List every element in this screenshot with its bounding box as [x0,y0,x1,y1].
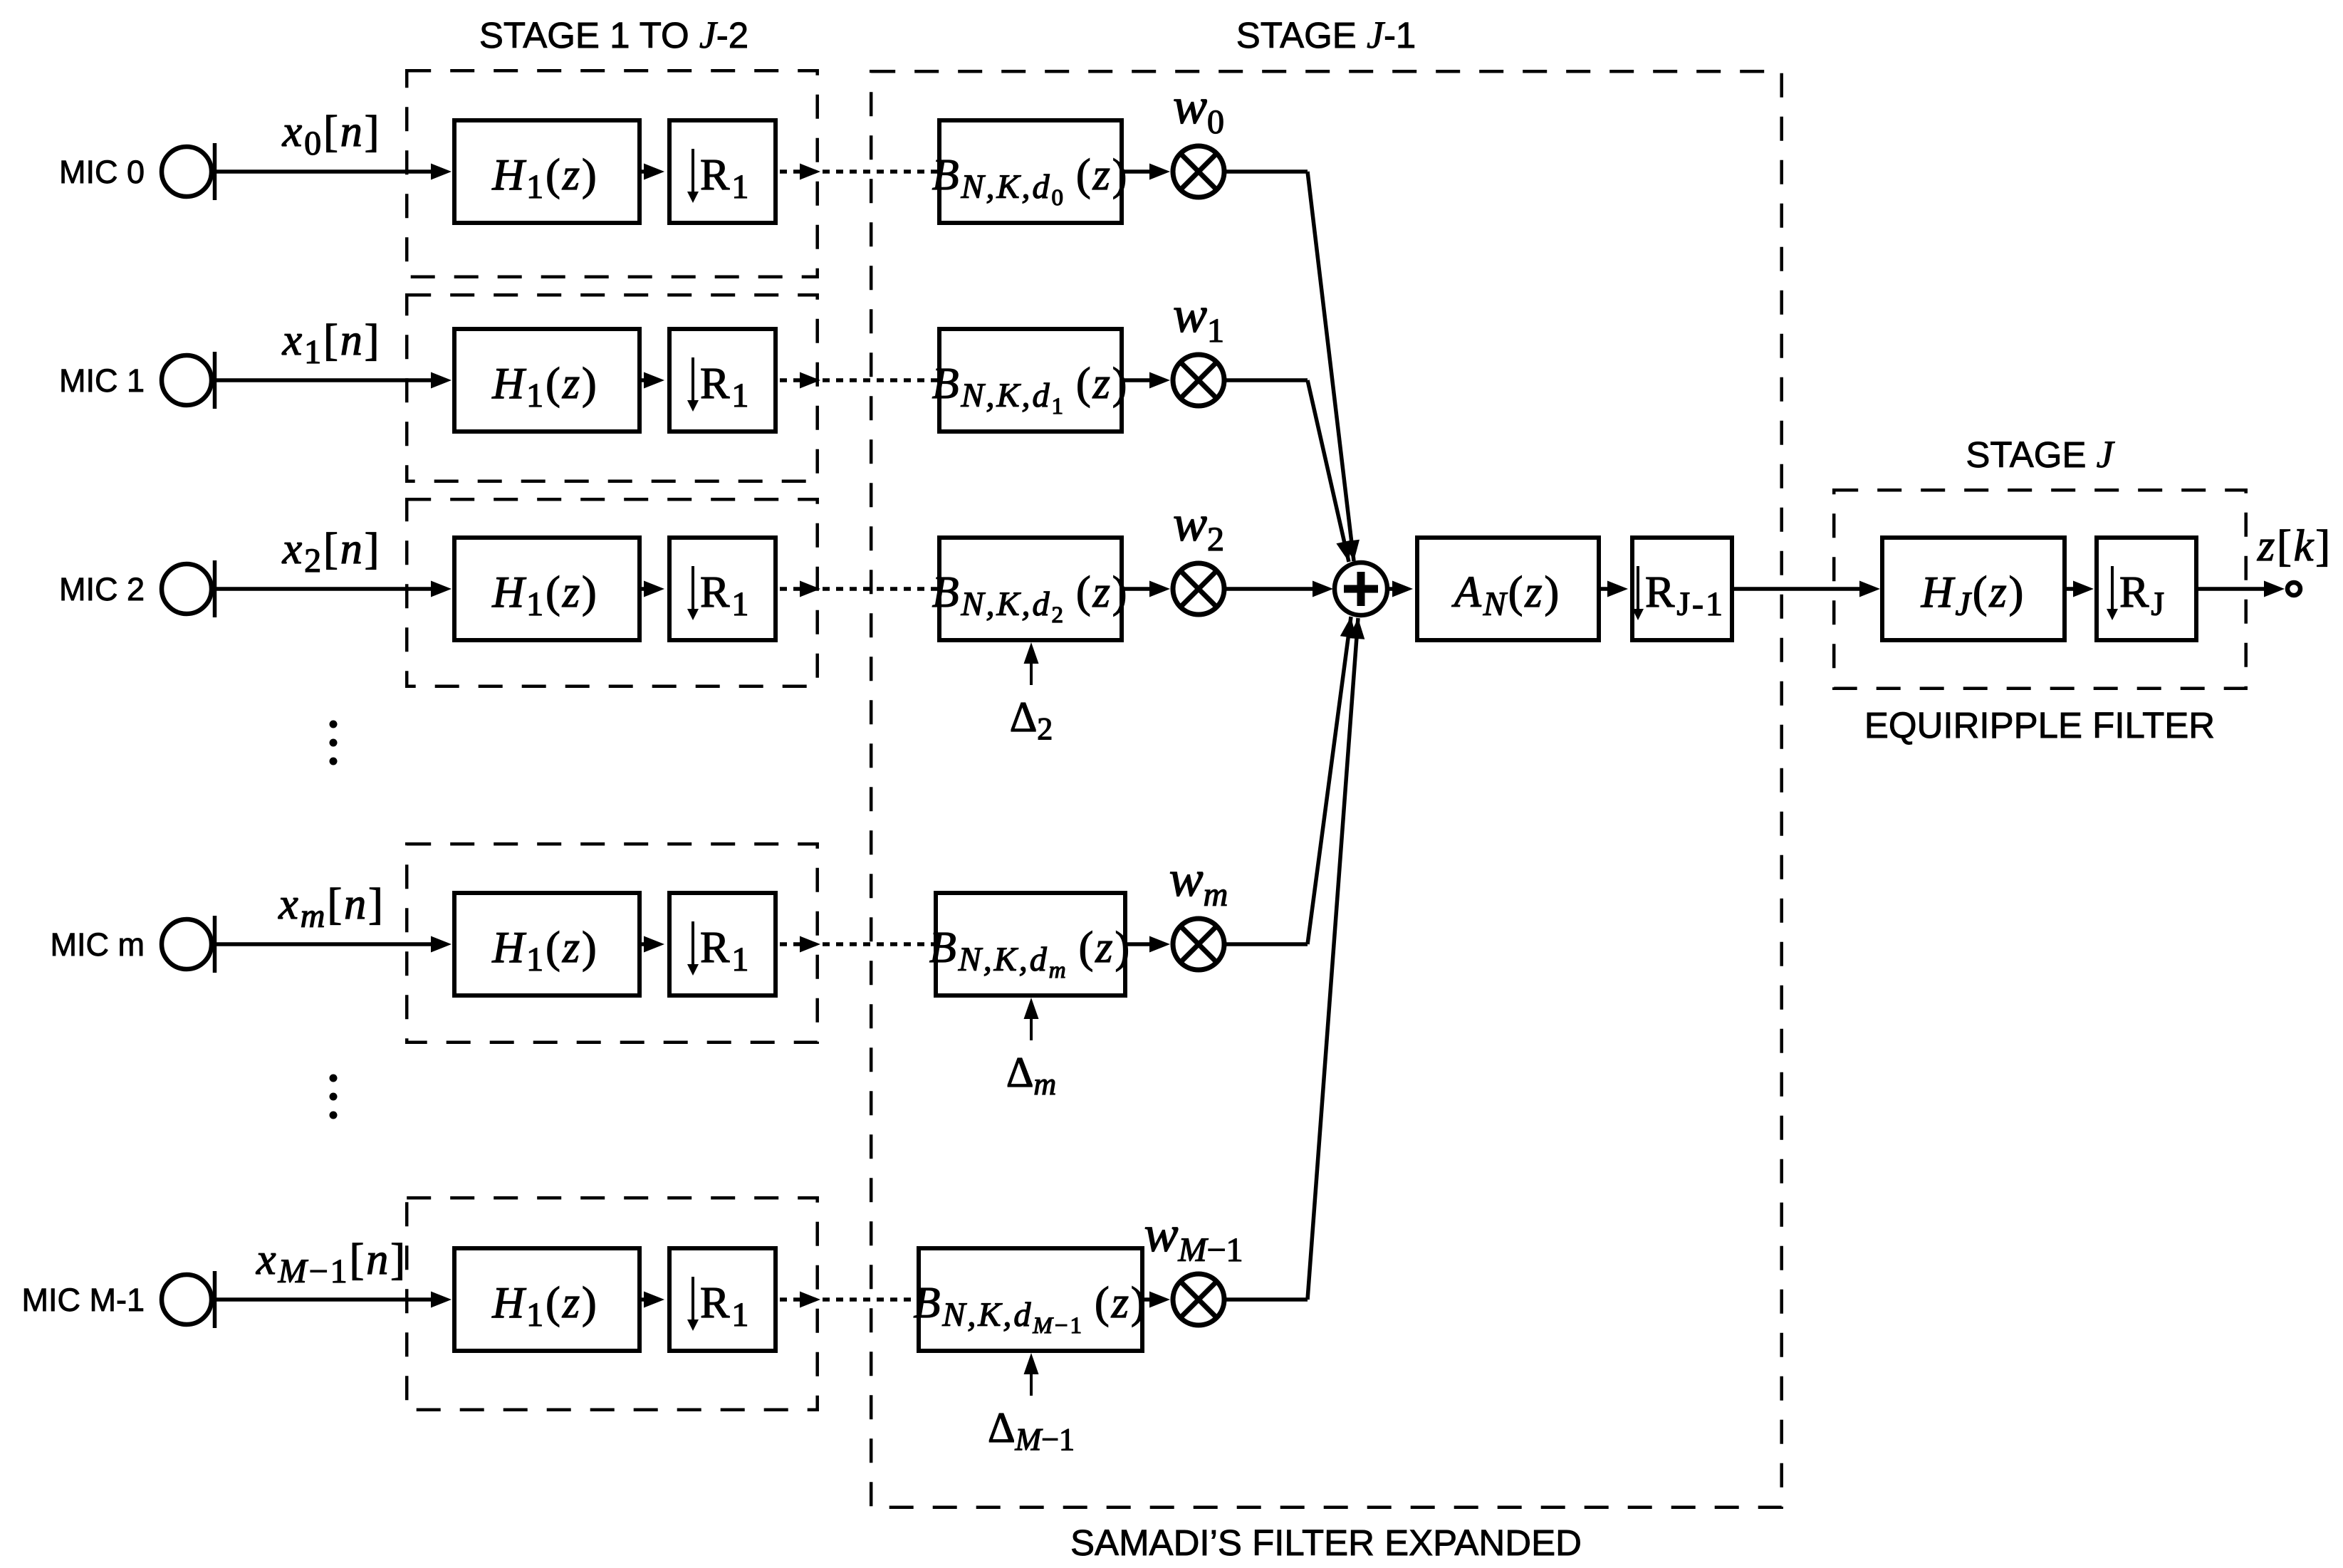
wire RJ-1 to HJ(z) [1734,581,1880,597]
multiplier (weight w_2) row 2 [1173,563,1224,615]
filter block H1(z) row 3 [454,893,640,995]
wire AN to RJ-1 [1601,581,1628,597]
filter block H1(z) row 0 [454,120,640,223]
wire multiplier w_m to summer [1224,617,1357,944]
svg-text:MIC 2: MIC 2 [59,571,145,607]
wire mic MIC 2 to H1 [216,581,452,597]
dotted wire R1 to B row 0 [780,164,937,180]
ellipsis dots between row 2 and MIC m [330,721,338,765]
wire B to multiplier row 3 [1127,936,1170,953]
wire H1 to R1 row 0 [642,164,664,180]
wire mic MIC 0 to H1 [216,164,452,180]
delay subfilter B_{N,K,d_1}(z) row 1 [932,329,1129,432]
wire Delta_m into B box row 3 [1024,998,1039,1040]
wire Delta_2 into B box row 2 [1024,642,1039,685]
wire multiplier w_1 to summer [1224,380,1352,562]
wire RJ to output terminal z[k] [2198,581,2285,597]
multiplier (weight w_m) row 3 [1173,919,1224,970]
microphone symbol MIC 0 [162,143,215,200]
wire H1 to R1 row 1 [642,372,664,389]
dashed frame STAGE J (equiripple filter) [1834,490,2246,689]
svg-text:x1[n]: x1[n] [282,316,382,371]
svg-text:z[k]: z[k] [2257,522,2332,570]
wire H1 to R1 row 4 [642,1292,664,1308]
svg-text:STAGE J: STAGE J [1966,433,2115,476]
dotted wire R1 to B row 2 [780,581,937,597]
dashed frame STAGE J-1 (Samadi filter expanded) [871,71,1782,1507]
dashed frame stage 1 row 4 [407,1198,817,1410]
dotted wire R1 to B row 3 [780,936,934,953]
delay subfilter B_{N,K,d_m}(z) row 3 [929,893,1132,995]
decimator RJ-1 [1632,538,1732,640]
svg-text:MIC m: MIC m [51,926,145,963]
summer node [1335,563,1387,615]
svg-text:SAMADI’S FILTER EXPANDED: SAMADI’S FILTER EXPANDED [1070,1522,1582,1563]
wire mic MIC m to H1 [216,936,452,953]
ellipsis dots between MIC m and MIC M-1 [330,1075,338,1119]
wire mic MIC 1 to H1 [216,372,452,389]
svg-text:H1(z): H1(z) [491,924,598,978]
wire B to multiplier row 0 [1124,164,1170,180]
dotted wire R1 to B row 4 [780,1292,917,1308]
wire HJ to RJ [2067,581,2094,597]
delay subfilter B_{N,K,d_M&#8722;1}(z) row 4 [914,1248,1148,1351]
dotted wire R1 to B row 1 [780,372,937,389]
multiplier (weight w_1) row 1 [1173,355,1224,406]
svg-text:MIC 0: MIC 0 [59,154,145,190]
svg-text:H1(z): H1(z) [491,151,598,206]
svg-text:MIC M-1: MIC M-1 [22,1282,145,1318]
dashed frame stage 1 row 0 [407,70,817,277]
svg-text:x2[n]: x2[n] [282,525,382,580]
dashed frame stage 1 row 2 [407,499,817,686]
wire Delta_M&#8722;1 into B box row 4 [1024,1353,1039,1396]
wire summer to AN(z) [1389,581,1413,597]
equiripple filter block HJ(z) [1882,538,2065,640]
multiplier (weight w_M&#8722;1) row 4 [1173,1274,1224,1325]
svg-text:HJ(z): HJ(z) [1921,568,2026,623]
delay subfilter B_{N,K,d_0}(z) row 0 [932,120,1129,223]
wire H1 to R1 row 2 [642,581,664,597]
decimator RJ [2097,538,2196,640]
dashed frame stage 1 row 3 [407,844,817,1042]
svg-text:MIC 1: MIC 1 [59,362,145,399]
filter block H1(z) row 4 [454,1248,640,1351]
filter block H1(z) row 2 [454,538,640,640]
svg-text:H1(z): H1(z) [491,1279,598,1334]
svg-text:xm[n]: xm[n] [278,880,385,935]
output terminal [2287,582,2300,595]
decimator R1 row 4 [669,1248,776,1351]
wire multiplier w_0 to summer [1224,172,1360,561]
dashed frame stage 1 row 1 [407,295,817,481]
wire multiplier w_M&#8722;1 to summer [1224,618,1364,1300]
svg-text:EQUIRIPPLE FILTER: EQUIRIPPLE FILTER [1864,705,2215,746]
decimator R1 row 2 [669,538,776,640]
wire B to multiplier row 1 [1124,372,1170,389]
svg-text:H1(z): H1(z) [491,568,598,623]
decimator R1 row 3 [669,893,776,995]
svg-text:H1(z): H1(z) [491,360,598,414]
wire mic MIC M-1 to H1 [216,1292,452,1308]
microphone symbol MIC 1 [162,352,215,409]
decimator R1 row 1 [669,329,776,432]
wire H1 to R1 row 3 [642,936,664,953]
allpass block AN(z) [1417,538,1599,640]
multiplier (weight w_0) row 0 [1173,146,1224,197]
microphone symbol MIC m [162,916,215,973]
wire multiplier w_2 to summer [1224,581,1333,597]
delay subfilter B_{N,K,d_2}(z) row 2 [932,538,1129,640]
svg-text:STAGE J-1: STAGE J-1 [1236,14,1416,56]
svg-text:STAGE 1 TO J-2: STAGE 1 TO J-2 [479,14,748,56]
filter block H1(z) row 1 [454,329,640,432]
decimator R1 row 0 [669,120,776,223]
wire B to multiplier row 4 [1144,1292,1170,1308]
microphone symbol MIC M-1 [162,1271,215,1328]
wire B to multiplier row 2 [1124,581,1170,597]
microphone symbol MIC 2 [162,560,215,617]
svg-text:x0[n]: x0[n] [282,108,382,162]
